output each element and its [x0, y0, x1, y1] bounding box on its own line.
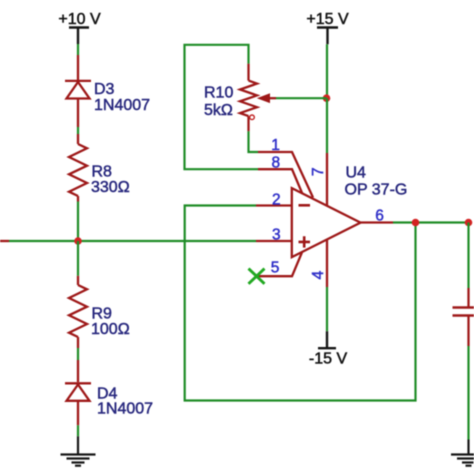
resistor R9 — [69, 276, 130, 348]
svg-text:5kΩ: 5kΩ — [204, 102, 233, 119]
svg-text:330Ω: 330Ω — [91, 179, 130, 196]
ground (left) — [61, 436, 96, 465]
pin 3 — [256, 227, 292, 244]
junction node — [74, 237, 82, 245]
svg-text:R8: R8 — [92, 164, 113, 181]
svg-text:R10: R10 — [204, 85, 233, 102]
pin 2 — [256, 192, 292, 209]
wire (left stub) — [0, 240, 9, 242]
wire — [77, 127, 79, 134]
svg-text:2: 2 — [272, 192, 281, 209]
wire — [467, 346, 469, 440]
power -15 V — [309, 331, 348, 367]
pin 7 — [310, 153, 327, 206]
power +10 V — [58, 11, 101, 44]
wire — [326, 98, 328, 153]
svg-text:8: 8 — [271, 155, 280, 172]
capacitor C — [453, 288, 474, 346]
svg-text:R9: R9 — [92, 306, 113, 323]
svg-text:1N4007: 1N4007 — [94, 97, 150, 114]
resistor R8 — [69, 134, 130, 202]
wire — [326, 287, 328, 331]
svg-text:7: 7 — [310, 167, 327, 176]
wire — [77, 44, 79, 55]
wire (R10 bottom to pin 1) — [249, 131, 259, 152]
op-amp U4 — [292, 165, 408, 258]
svg-text:D3: D3 — [94, 81, 115, 98]
pin 8 — [258, 155, 302, 194]
wire (wiper to +15 rail) — [276, 97, 327, 99]
svg-text:-15 V: -15 V — [309, 351, 348, 368]
junction node (cap branch) — [465, 219, 473, 227]
svg-text:U4: U4 — [346, 165, 367, 182]
svg-text:5: 5 — [271, 260, 280, 277]
wire — [326, 44, 328, 98]
wire (horizontal to pin 3) — [9, 240, 256, 242]
potentiometer R10 — [204, 64, 276, 132]
svg-text:+10 V: +10 V — [58, 11, 101, 28]
svg-text:6: 6 — [375, 208, 384, 225]
wire (feedback loop) — [185, 206, 416, 401]
wire — [77, 425, 79, 436]
ground (right) — [451, 440, 474, 466]
svg-text:4: 4 — [310, 270, 327, 279]
wire — [77, 202, 79, 242]
no-connect X — [249, 269, 265, 284]
svg-text:100Ω: 100Ω — [91, 321, 130, 338]
pin 1 — [258, 137, 313, 198]
wire — [467, 223, 469, 289]
svg-text:+15 V: +15 V — [306, 11, 349, 28]
svg-text:3: 3 — [272, 227, 281, 244]
diode D4 — [65, 360, 153, 425]
wire (top loop) — [185, 45, 259, 169]
svg-text:1N4007: 1N4007 — [97, 401, 153, 418]
junction node — [323, 94, 331, 102]
pin 4 — [310, 239, 327, 287]
svg-text:OP 37-G: OP 37-G — [345, 182, 408, 199]
wire — [393, 221, 469, 223]
wire — [77, 241, 79, 276]
pin 5 — [257, 252, 302, 276]
junction node (output) — [412, 219, 420, 227]
power +15 V — [306, 11, 349, 44]
svg-text:1: 1 — [271, 137, 280, 154]
pin 6 — [361, 208, 394, 225]
wire — [77, 348, 79, 360]
diode D3 — [65, 55, 150, 127]
